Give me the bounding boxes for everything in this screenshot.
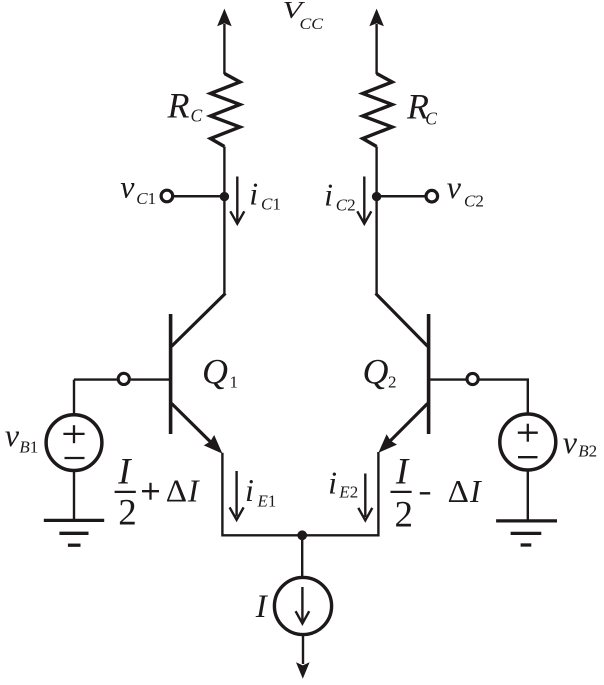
svg-text:I: I: [469, 473, 482, 509]
svg-text:CC: CC: [300, 16, 324, 33]
svg-text:C2: C2: [464, 191, 484, 210]
svg-text:I: I: [117, 452, 132, 493]
svg-text:I: I: [395, 452, 410, 493]
svg-text:v: v: [563, 424, 578, 460]
svg-text:i: i: [328, 465, 337, 501]
svg-text:C2: C2: [336, 195, 356, 214]
svg-text:2: 2: [395, 495, 414, 536]
svg-text:i: i: [249, 176, 258, 212]
svg-text:B2: B2: [578, 442, 597, 461]
svg-text:v: v: [120, 169, 135, 205]
svg-text:Q: Q: [202, 351, 228, 391]
svg-text:i: i: [324, 176, 333, 212]
svg-text:Δ: Δ: [166, 473, 187, 509]
svg-text:Q: Q: [363, 351, 389, 391]
svg-text:v: v: [5, 417, 20, 453]
svg-text:I: I: [255, 589, 269, 625]
svg-text:E1: E1: [257, 492, 277, 511]
svg-text:i: i: [245, 472, 254, 508]
svg-text:B1: B1: [19, 437, 38, 456]
svg-text:1: 1: [230, 373, 239, 392]
svg-text:C1: C1: [261, 194, 281, 213]
svg-text:Δ: Δ: [448, 473, 469, 509]
svg-text:2: 2: [388, 373, 397, 392]
svg-text:C: C: [191, 106, 203, 126]
svg-text:E2: E2: [338, 482, 358, 501]
svg-text:2: 2: [118, 493, 137, 534]
svg-text:C1: C1: [136, 189, 156, 208]
svg-text:I: I: [187, 472, 200, 508]
svg-text:C: C: [425, 109, 437, 129]
svg-text:v: v: [447, 169, 462, 205]
svg-text:R: R: [167, 85, 190, 125]
